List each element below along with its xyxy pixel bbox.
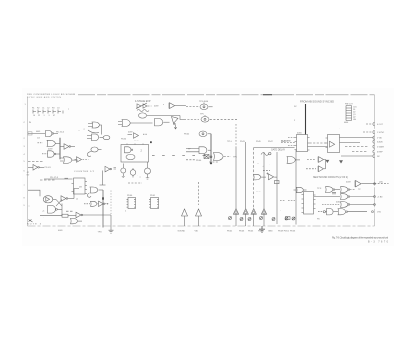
svg-text:PD 47-3: PD 47-3 — [50, 177, 59, 179]
svg-text:4066: 4066 — [344, 122, 348, 124]
svg-text:x: x — [163, 104, 164, 106]
off-page arrow A1 — [182, 209, 188, 226]
svg-text:PD40: PD40 — [121, 139, 127, 141]
label 2 — [141, 149, 143, 152]
right border labels — [363, 124, 372, 132]
svg-text:NOTE 3: NOTE 3 — [27, 224, 42, 226]
misc labels — [128, 130, 138, 134]
svg-text:47: 47 — [53, 115, 55, 117]
svg-text:— —: — — — [256, 190, 261, 192]
header dark fragment — [263, 94, 272, 95]
and gate G27 — [87, 134, 103, 141]
wire vertical — [61, 204, 63, 216]
svg-text:VID: VID — [195, 230, 199, 232]
svg-text:FROM AB SOUND SYNC BD: FROM AB SOUND SYNC BD — [300, 99, 334, 103]
labels on wire — [294, 106, 297, 122]
resistor R9 — [40, 214, 76, 217]
buffer B8 — [128, 133, 148, 139]
long wire W3 — [253, 148, 255, 209]
wire stub with tick — [100, 171, 106, 186]
arrow mark — [29, 220, 33, 223]
svg-text:4 OUT: 4 OUT — [377, 124, 384, 126]
bottom labels row — [227, 230, 296, 232]
pin table TB1 — [346, 106, 352, 121]
svg-text:1 SYNC: 1 SYNC — [377, 132, 385, 134]
transistor Q1 — [121, 164, 126, 178]
svg-text:PD 43: PD 43 — [45, 167, 52, 169]
header title text row — [27, 94, 75, 99]
svg-text:PIN OUT: PIN OUT — [345, 104, 354, 106]
and gate G24 — [318, 209, 338, 215]
buffer B12 — [355, 181, 389, 187]
long wire W4 — [254, 148, 295, 209]
or gate G4 — [60, 157, 78, 164]
long wire W1 — [235, 124, 237, 209]
transistor Q2 — [130, 168, 136, 178]
and gate G6 — [48, 206, 63, 214]
wire dashed y180 — [40, 178, 68, 180]
off-page arrow A2 — [196, 182, 202, 226]
label — [358, 189, 361, 191]
wire U5 to U6 — [310, 143, 328, 147]
buffer B7 down — [172, 117, 179, 130]
label new sound — [313, 177, 348, 179]
svg-text:PD43: PD43 — [240, 141, 245, 143]
trimmer P7 — [292, 217, 295, 220]
label PD41-6 — [36, 131, 65, 139]
nand gate G3 — [42, 151, 60, 157]
arc mark — [88, 130, 99, 133]
buffer B9 — [267, 173, 278, 180]
in-phase label — [281, 139, 291, 142]
svg-text:PD40: PD40 — [196, 160, 202, 162]
long wire W2 — [245, 142, 247, 209]
label right — [377, 212, 381, 214]
wire dashed — [66, 210, 74, 212]
wire main sync — [305, 104, 307, 135]
buffer B11 — [306, 166, 326, 172]
label above wire — [50, 171, 95, 188]
label 4-stage expander — [135, 100, 151, 103]
svg-text:22: 22 — [38, 115, 40, 117]
DIP package U3 — [127, 198, 136, 209]
ground GND2 — [259, 226, 265, 232]
buffer B3 — [61, 196, 74, 202]
delay coil L1 — [261, 152, 271, 155]
IC U5 — [295, 135, 310, 152]
svg-text:—: — — [257, 163, 259, 165]
wire corner — [28, 190, 40, 196]
op-amp box U6 — [326, 135, 340, 153]
wire vertical x296 — [295, 150, 297, 225]
nor gate G6b — [71, 218, 83, 223]
nand gate G1 — [46, 131, 59, 137]
wire crossover X — [56, 200, 62, 207]
wire vertical node bar — [59, 138, 61, 159]
gate G14 — [184, 133, 190, 135]
box with X — [204, 155, 212, 159]
nand gate G23 — [322, 202, 375, 208]
label TP4 — [58, 230, 102, 234]
nand gate G22 — [314, 194, 375, 200]
IC U7 tall dip — [302, 192, 316, 215]
label 4066 — [297, 132, 302, 134]
diode pair D1 — [136, 103, 152, 109]
DIP package U4 — [149, 198, 159, 209]
svg-text:R3: R3 — [52, 108, 54, 110]
nor gate G9 — [139, 113, 200, 120]
trimmer P1 — [229, 217, 232, 220]
testpoint TP oval — [103, 136, 110, 140]
buffer B14 — [105, 166, 116, 172]
small box — [275, 181, 280, 184]
or gate G26 — [88, 122, 102, 135]
border hop marks — [373, 123, 375, 158]
buffer B13 — [75, 157, 89, 163]
svg-text:C2: C2 — [47, 108, 49, 110]
resistor marks — [76, 199, 79, 201]
svg-text:PD 41-6: PD 41-6 — [56, 132, 65, 134]
svg-text:TP5 L: TP5 L — [227, 141, 232, 143]
trimmer P3 — [248, 218, 251, 221]
label U3 — [125, 195, 133, 212]
label 4069 — [48, 149, 53, 151]
trimmer P2 — [240, 218, 243, 221]
circle gate G5 — [43, 196, 56, 203]
label U4 — [150, 195, 156, 197]
svg-text:+5 BD: +5 BD — [377, 196, 383, 198]
note text bottom-left — [27, 224, 42, 226]
transistor Q3 — [145, 168, 151, 179]
legend jumper row J1-J6 — [33, 110, 63, 114]
small marks — [256, 190, 282, 211]
svg-text:2 VID: 2 VID — [377, 137, 383, 139]
svg-text:COUNTER 1/2: COUNTER 1/2 — [74, 171, 95, 173]
svg-text:— —: — — — [134, 140, 139, 142]
marks — [154, 104, 164, 107]
border frame — [28, 95, 375, 226]
svg-text:6 REF: 6 REF — [377, 151, 383, 153]
svg-text:.1: .1 — [48, 115, 50, 117]
label TP5 — [196, 156, 238, 162]
junction node — [102, 197, 104, 199]
down arrow mark — [326, 160, 343, 163]
trimmer P6 — [285, 217, 288, 220]
wire below box — [147, 162, 149, 168]
svg-text:PD42: PD42 — [184, 133, 190, 135]
dashes under — [128, 182, 142, 184]
svg-text:PD53: PD53 — [290, 230, 296, 232]
wire corner up — [74, 189, 79, 199]
label SOUND — [178, 230, 186, 232]
nor gate G7 — [90, 187, 103, 193]
gate G19 left — [294, 187, 307, 192]
buffer B5 — [76, 212, 111, 218]
buffer B2 — [28, 165, 44, 171]
nor gate G8 — [84, 201, 99, 206]
flipflop box U1 — [72, 178, 88, 194]
wire vertical x277 — [276, 152, 278, 224]
relay coil K1 — [87, 147, 101, 156]
svg-text:Fig. 7-9. Circuit logic diagra: Fig. 7-9. Circuit logic diagram of the e… — [332, 236, 388, 240]
marks — [317, 218, 320, 220]
nand gate G20 — [326, 187, 341, 193]
svg-text:PD49 PD51: PD49 PD51 — [278, 230, 290, 232]
buffer B4 — [99, 201, 109, 206]
nand gate G21 — [341, 187, 356, 193]
svg-text:SOUND: SOUND — [178, 230, 186, 232]
svg-text:.1: .1 — [43, 115, 45, 117]
label 4X — [379, 182, 383, 184]
svg-text:R2: R2 — [37, 108, 39, 110]
svg-text:—: — — [78, 130, 80, 132]
wire to FF box — [44, 178, 73, 180]
svg-text:PD40: PD40 — [127, 195, 133, 197]
svg-text:GATE DELAY: GATE DELAY — [271, 149, 286, 152]
dashes — [263, 169, 270, 171]
buffer B1 — [61, 144, 76, 150]
wire vertical x211 — [210, 134, 212, 162]
svg-text:PD43: PD43 — [239, 230, 245, 232]
gate G13 TP5 — [200, 114, 205, 116]
label — [317, 188, 322, 190]
ground GND1 — [109, 230, 114, 233]
trimmer P5 — [272, 218, 275, 221]
label 2 — [78, 129, 86, 132]
svg-text:(4X): (4X) — [379, 182, 383, 184]
svg-text:PD47: PD47 — [268, 141, 273, 143]
label right — [377, 196, 383, 198]
IC box U2 with gates — [121, 144, 149, 163]
off-page arrow A6 — [261, 209, 266, 226]
nor gate G18 — [253, 174, 266, 180]
curl mark — [87, 193, 91, 197]
svg-text:PD45: PD45 — [256, 141, 261, 143]
label VID — [195, 230, 199, 232]
nand gate G25 — [338, 209, 367, 215]
svg-text:3 AUD: 3 AUD — [377, 140, 383, 143]
wire dashed left — [28, 161, 44, 163]
svg-text:PD41: PD41 — [150, 195, 156, 197]
and gate G15 — [188, 149, 191, 151]
svg-text:GND: GND — [268, 230, 273, 232]
svg-text:4-STAGE EXP: 4-STAGE EXP — [135, 100, 151, 103]
caption line 2 — [368, 240, 389, 243]
svg-text:PD45: PD45 — [248, 230, 254, 232]
label — [121, 139, 139, 142]
gate G12 TP3 — [199, 101, 209, 103]
buffer B6 — [169, 103, 199, 109]
dashes — [152, 156, 219, 162]
label 4049 — [346, 182, 351, 184]
heading FROM AB SOUND — [300, 99, 334, 103]
svg-text:4069: 4069 — [36, 131, 40, 133]
label 4011 — [336, 201, 341, 203]
trimmer P4 — [260, 217, 263, 220]
junction dot — [150, 141, 152, 143]
off-page arrow A4 — [243, 209, 248, 226]
svg-text:5 GATE: 5 GATE — [377, 145, 385, 148]
svg-text:C3: C3 — [57, 108, 59, 110]
svg-text:x: x — [68, 109, 69, 111]
wire vertical TP4 — [102, 190, 104, 228]
or gate G16 — [214, 153, 231, 161]
xor gate G2 — [38, 140, 61, 146]
marks — [339, 128, 340, 130]
misc marks bottom-left — [29, 206, 46, 220]
label PD43 — [27, 167, 52, 176]
cap mark — [332, 192, 336, 194]
resistor R20 — [286, 217, 291, 220]
net labels row — [227, 141, 286, 143]
svg-text:PD41: PD41 — [227, 230, 233, 232]
misc marks — [257, 163, 271, 168]
off-page arrow A5 — [251, 209, 256, 226]
svg-text:R1: R1 — [32, 108, 34, 110]
caption line 1 — [332, 236, 388, 240]
svg-text:IN-PHASE: IN-PHASE — [281, 139, 291, 142]
output wires right — [340, 138, 374, 157]
buffer pair B10 — [307, 157, 326, 169]
svg-text:10: 10 — [33, 115, 35, 117]
svg-text:NEW SOUND CIRCUITS (2 OF 2): NEW SOUND CIRCUITS (2 OF 2) — [313, 177, 348, 179]
svg-text:SYNC GEN AND CNTDN: SYNC GEN AND CNTDN — [27, 96, 61, 99]
svg-text:⊣: ⊣ — [262, 165, 264, 168]
wire vertical to ground — [110, 191, 112, 231]
svg-text:x: x — [29, 206, 30, 208]
border crossing circles — [372, 183, 376, 213]
left border input ticks — [24, 104, 32, 207]
off-page arrow A3 — [233, 209, 238, 226]
dashes near — [280, 200, 295, 202]
or gate G17 — [287, 156, 300, 163]
squiggle — [137, 110, 149, 112]
or gate G10 — [118, 120, 153, 127]
input wire node IN1 — [28, 132, 45, 135]
dashes — [281, 138, 295, 146]
label GATE DELAY — [271, 149, 286, 152]
and gate G11 — [155, 119, 170, 126]
misc marks — [137, 174, 142, 178]
svg-text:C1: C1 — [42, 108, 44, 110]
ground dot — [210, 162, 212, 164]
svg-text:(TV): (TV) — [377, 212, 381, 214]
